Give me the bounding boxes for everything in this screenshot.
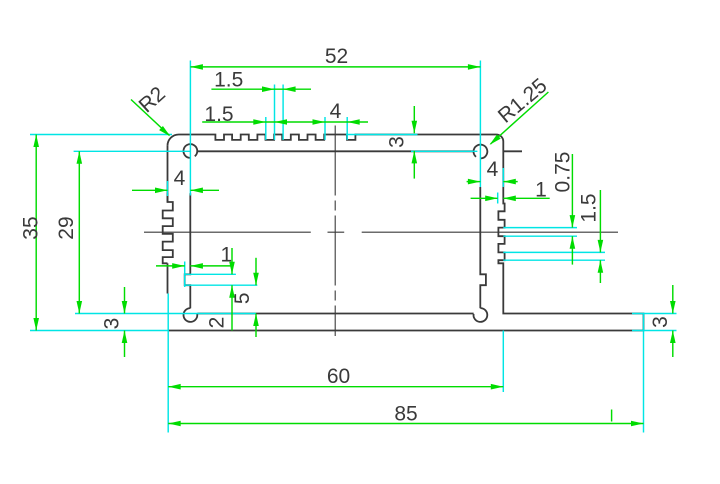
svg-text:3: 3 [101, 318, 124, 330]
svg-text:0.75: 0.75 [552, 152, 575, 193]
svg-text:52: 52 [325, 45, 348, 68]
svg-text:1.5: 1.5 [204, 103, 233, 126]
svg-text:1.5: 1.5 [578, 193, 601, 222]
svg-text:85: 85 [394, 403, 417, 426]
svg-text:4: 4 [174, 167, 186, 190]
svg-text:4: 4 [330, 100, 342, 123]
svg-text:60: 60 [327, 365, 350, 388]
svg-text:5: 5 [231, 292, 254, 304]
svg-text:35: 35 [20, 216, 43, 239]
svg-text:4: 4 [487, 158, 499, 181]
svg-text:29: 29 [55, 216, 78, 239]
svg-text:3: 3 [386, 136, 409, 148]
svg-text:1: 1 [535, 179, 547, 202]
svg-text:2: 2 [206, 317, 229, 329]
svg-text:1.5: 1.5 [214, 68, 243, 91]
svg-text:3: 3 [649, 316, 672, 328]
